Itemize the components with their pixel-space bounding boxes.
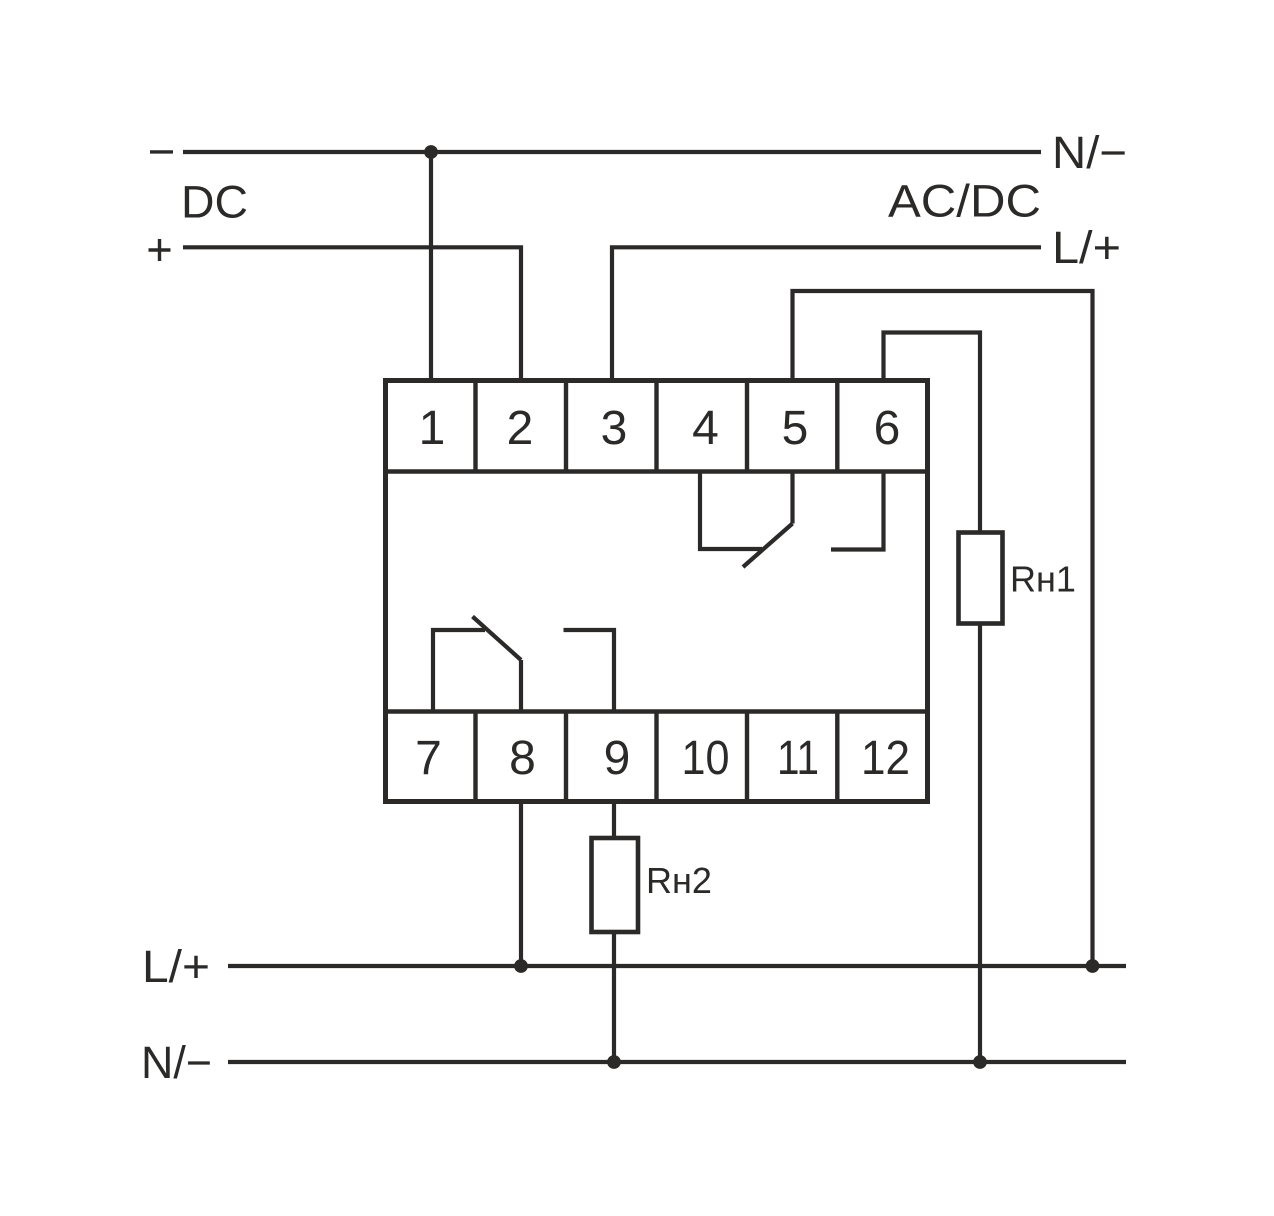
svg-text:Rн2: Rн2 — [646, 860, 712, 901]
svg-text:9: 9 — [604, 732, 631, 785]
terminal strip row 1 bottom line — [383, 469, 928, 473]
wire terminal 1 to N/- bus — [429, 152, 433, 381]
svg-text:8: 8 — [509, 732, 536, 785]
terminal divider 4/5 — [745, 381, 749, 472]
terminal divider 11/12 — [835, 712, 839, 802]
junction node terminal 5 wire on L/+ bus — [1086, 959, 1100, 973]
wire N/- top bus — [183, 150, 1041, 154]
junction node terminal 8 on L/+ bus — [514, 959, 528, 973]
relay contact K1 common lead terminal 5 — [790, 472, 794, 524]
relay contact K2 fixed contact terminal 9 — [564, 630, 615, 712]
relay contact K1 fixed contact terminal 6 — [831, 472, 884, 550]
terminal divider 2/3 — [564, 381, 568, 472]
junction node Rn2 wire on N/- bus — [607, 1055, 621, 1069]
svg-text:10: 10 — [682, 732, 730, 785]
relay contact K1 fixed contact terminal 4 — [700, 472, 762, 550]
svg-text:N/−: N/− — [141, 1037, 212, 1088]
label minus (DC) — [150, 150, 173, 153]
svg-text:L/+: L/+ — [142, 941, 210, 992]
label plus (DC) — [149, 239, 171, 261]
terminal divider 1/2 — [473, 381, 477, 472]
wire terminal 8 to L/+ bottom bus — [519, 800, 523, 966]
device terminal box outline — [386, 381, 928, 802]
svg-text:6: 6 — [874, 402, 901, 455]
svg-text:Rн1: Rн1 — [1010, 559, 1076, 600]
wire resistor Rn1 to N/- bottom bus — [978, 623, 982, 1062]
terminal strip row 2 top line — [383, 709, 928, 713]
terminal divider 8/9 — [564, 712, 568, 802]
terminal divider 9/10 — [654, 712, 658, 802]
svg-text:2: 2 — [507, 402, 534, 455]
terminal divider 7/8 — [473, 712, 477, 802]
svg-text:L/+: L/+ — [1052, 222, 1121, 273]
wire L/+ feed to terminal 3 — [612, 247, 1041, 381]
svg-text:11: 11 — [777, 732, 819, 785]
svg-text:AC/DC: AC/DC — [888, 175, 1041, 226]
relay contact K2 fixed contact terminal 7 — [433, 630, 485, 712]
svg-text:1: 1 — [419, 402, 446, 455]
wire N/- bottom bus — [228, 1060, 1126, 1064]
wire DC + feed to terminal 2 — [183, 247, 521, 381]
svg-text:3: 3 — [601, 402, 628, 455]
terminal divider 10/11 — [745, 712, 749, 802]
terminal divider 5/6 — [835, 381, 839, 472]
terminal divider 3/4 — [654, 381, 658, 472]
svg-text:4: 4 — [692, 402, 719, 455]
junction node terminal 1 on N/- bus — [424, 145, 438, 159]
svg-text:7: 7 — [415, 732, 442, 785]
wire terminal 9 to resistor Rn2 — [612, 800, 616, 839]
junction node Rn1 wire on N/- bus — [973, 1055, 987, 1069]
relay contact K2 common lead terminal 8 — [519, 660, 523, 712]
resistor Rn2 — [592, 838, 639, 932]
resistor Rn1 — [959, 533, 1003, 624]
wire L/+ bottom bus — [228, 964, 1126, 968]
svg-text:12: 12 — [861, 732, 910, 785]
svg-text:N/−: N/− — [1052, 127, 1127, 178]
wire terminal 5 to L/+ bottom bus — [793, 291, 1093, 966]
wire resistor Rn2 to N/- bottom bus — [612, 931, 616, 1062]
svg-text:DC: DC — [181, 177, 248, 228]
svg-text:5: 5 — [782, 402, 809, 455]
wire terminal 6 to resistor Rn1 — [884, 333, 981, 535]
relay contact K1 movable blade — [743, 524, 793, 568]
relay contact K2 movable blade — [473, 617, 522, 661]
